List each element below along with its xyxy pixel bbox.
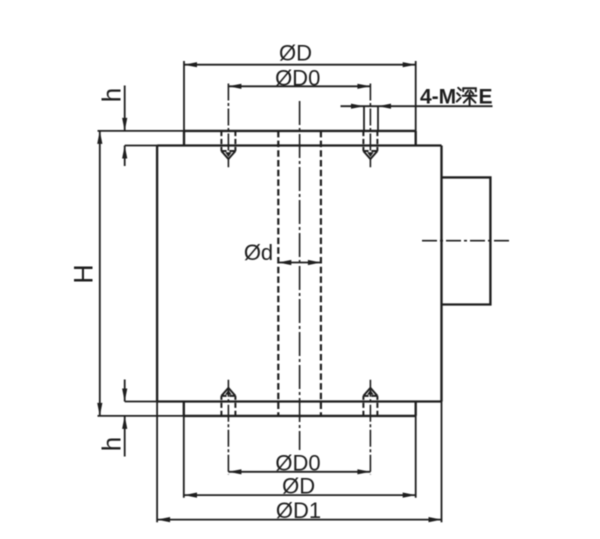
- svg-text:h: h: [96, 88, 126, 102]
- svg-text:ØD: ØD: [279, 41, 312, 66]
- svg-text:H: H: [69, 264, 99, 284]
- svg-text:ØD0: ØD0: [275, 66, 320, 91]
- svg-text:h: h: [96, 437, 126, 451]
- svg-text:ØD: ØD: [282, 474, 315, 499]
- svg-text:4-M: 4-M: [420, 86, 456, 109]
- svg-text:Ød: Ød: [244, 240, 273, 265]
- svg-text:ØD0: ØD0: [275, 450, 320, 475]
- svg-text:E: E: [479, 86, 493, 109]
- svg-text:ØD1: ØD1: [276, 498, 321, 523]
